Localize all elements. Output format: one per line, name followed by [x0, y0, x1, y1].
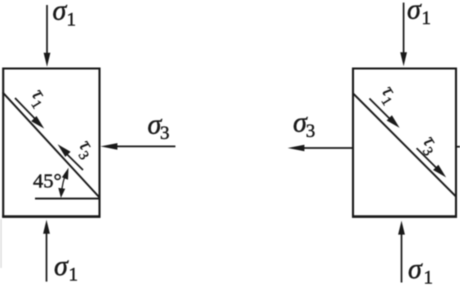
faint scan smudge at left margin: [0, 219, 2, 268]
left block bottom edge (thicker scan line): [2, 215, 100, 218]
svg-text:3: 3: [306, 121, 316, 142]
arrowhead sigma1 top-left (down): [44, 53, 51, 67]
sigma1 arrow line, top of right block: [403, 3, 405, 54]
sigma1 arrow line, bottom of left block: [46, 233, 48, 282]
svg-text:σ: σ: [407, 0, 422, 25]
right block: [353, 69, 456, 217]
svg-text:1: 1: [422, 8, 432, 29]
right block bottom edge (thicker scan line): [352, 215, 457, 218]
label tau3 right block (rotated): [415, 132, 445, 159]
svg-text:σ: σ: [54, 251, 69, 282]
label tau3 left block (rotated): [71, 136, 101, 163]
right-edge cut-off arrow stub: [456, 146, 460, 148]
svg-text:σ: σ: [408, 254, 423, 285]
arrowhead tau1 left block (down-right): [31, 116, 44, 129]
arrowhead sigma1 top-right (down): [400, 52, 407, 66]
arrowhead sigma3 left block (left): [100, 143, 117, 150]
sigma1 arrow line, top of left block: [46, 5, 48, 54]
arrowhead tau1 right block (down-right): [387, 115, 400, 128]
arrowhead 45-arc top (up-right): [62, 168, 69, 180]
tau1 shear arrow shaft, right block: [369, 99, 391, 121]
svg-text:1: 1: [69, 265, 79, 286]
sigma1 arrow line, bottom of right block: [401, 234, 403, 283]
45-degree angle arc: [61, 172, 67, 196]
right block shear plane (diagonal): [353, 93, 456, 196]
arrowhead 45-arc bottom (down): [58, 188, 65, 198]
sigma3 arrow line, right of left block: [115, 145, 175, 147]
left block 45-degree reference horizontal line: [35, 198, 100, 200]
svg-text:1: 1: [67, 10, 77, 31]
tau3 shear arrow shaft, right block: [417, 148, 437, 168]
svg-text:3: 3: [160, 123, 170, 144]
tau1 shear arrow shaft, left block: [15, 98, 37, 120]
arrowhead tau3 left block (up-left): [58, 144, 71, 157]
svg-text:1: 1: [424, 268, 434, 286]
tau3 shear arrow shaft, left block: [67, 154, 84, 170]
svg-text:45°: 45°: [33, 171, 62, 193]
label tau1 left block (rotated): [23, 85, 53, 112]
arrowhead tau3 right block (down-right): [433, 165, 446, 178]
svg-text:σ: σ: [53, 0, 68, 27]
arrowhead sigma1 bottom-left (up): [43, 220, 50, 234]
arrowhead sigma1 bottom-right (up): [398, 221, 405, 235]
arrowhead sigma3 right block (left): [288, 145, 305, 152]
left block shear plane (diagonal): [3, 92, 100, 197]
label tau1 right block (rotated): [373, 82, 403, 109]
sigma3 arrow line, left of right block: [304, 147, 353, 149]
left block: [3, 69, 99, 217]
